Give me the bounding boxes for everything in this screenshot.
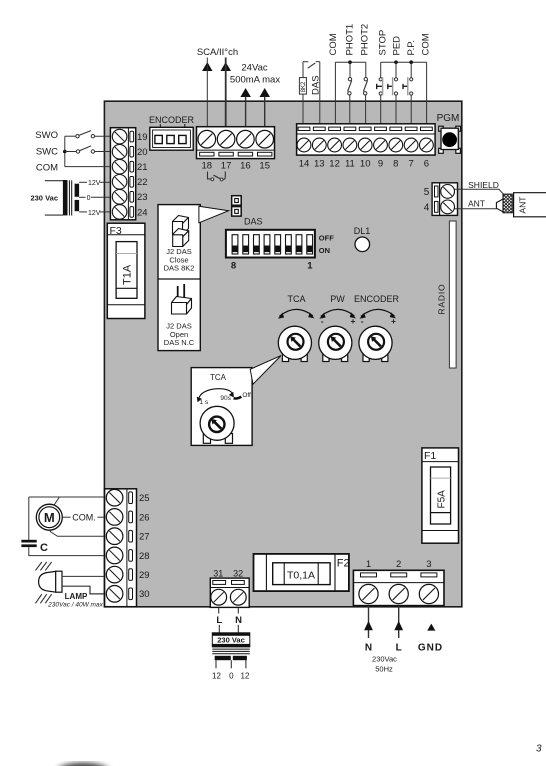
svg-text:2: 2 [396, 559, 401, 570]
DIP switch DAS [226, 230, 315, 258]
wire terminal 12 COM with bus to PHOT1/PHOT2 [335, 62, 365, 128]
svg-text:24: 24 [137, 207, 148, 218]
svg-text:DAS: DAS [311, 75, 322, 95]
wire motor common top (to terminal 25) [29, 497, 106, 505]
svg-text:32: 32 [233, 569, 243, 579]
screw terminal 15 [256, 130, 274, 148]
junction dot P.P. [409, 60, 413, 64]
screws of block 19-24 [112, 129, 127, 219]
svg-text:3: 3 [536, 744, 542, 755]
wire and arrow L (terminal 2) [394, 606, 403, 638]
svg-text:PW: PW [330, 294, 345, 304]
wire motor bottom (to terminal 27) [49, 530, 106, 536]
svg-text:OFF: OFF [319, 234, 334, 243]
transformer secondary windings [215, 656, 247, 660]
callout divider line [158, 278, 200, 280]
svg-text:50Hz: 50Hz [375, 664, 393, 673]
svg-text:30: 30 [139, 589, 150, 600]
fuse T0,1A [273, 563, 330, 585]
wire slots of block 15-18 [200, 152, 272, 156]
pin numbers 19-24 [137, 132, 148, 218]
switch SWC (to terminal 20) [65, 146, 111, 153]
wire 0 (to terminal 23) [79, 195, 111, 202]
svg-text:DAS 8K2: DAS 8K2 [164, 264, 195, 273]
svg-text:ANT: ANT [468, 199, 485, 209]
wire terminal 18 [206, 58, 208, 129]
potentiometer ENCODER [359, 326, 392, 361]
callout pointer to J2 jumper [199, 206, 229, 223]
wire left rail to capacitor [28, 497, 30, 540]
wire L to transformer [218, 608, 221, 633]
svg-text:DAS N.C: DAS N.C [164, 338, 195, 347]
terminal block 19-24 [110, 128, 135, 220]
potentiometer PW [319, 326, 352, 361]
pushbutton PED NO (wire terminal 8) [388, 62, 398, 128]
svg-text:230 Vac: 230 Vac [217, 636, 245, 645]
svg-text:0: 0 [87, 195, 91, 202]
screw terminal 4 [441, 200, 455, 214]
transformer core laminations [212, 649, 250, 654]
svg-text:SWC: SWC [36, 147, 58, 158]
svg-text:17: 17 [221, 160, 232, 171]
svg-text:L: L [396, 642, 402, 653]
svg-text:12V: 12V [88, 210, 101, 217]
svg-text:12: 12 [212, 672, 221, 681]
wire slots of block 25-30 [129, 492, 133, 600]
wire slots of block 19-24 [130, 131, 134, 217]
board PCB outline [104, 101, 461, 607]
wire terminal 17 [225, 58, 227, 129]
svg-text:5: 5 [424, 187, 430, 198]
svg-text:N: N [235, 615, 242, 626]
wire ant core [455, 208, 497, 210]
screw terminal 5 [441, 185, 455, 199]
svg-text:COM.: COM. [72, 512, 96, 522]
svg-text:26: 26 [139, 512, 150, 523]
wire COM (to terminal 26) [62, 512, 106, 522]
svg-text:9: 9 [378, 159, 383, 170]
jumper J2 on board [232, 196, 242, 216]
arrow II ch (to terminal 17) [221, 62, 232, 71]
wire shield to antenna [455, 189, 505, 195]
svg-text:F5A: F5A [437, 490, 448, 509]
pin numbers 14-6 [299, 159, 429, 170]
svg-text:11: 11 [345, 159, 355, 170]
svg-text:ON: ON [319, 246, 330, 255]
screw terminal 32 [230, 589, 246, 605]
antenna connector body (hatched) [503, 194, 512, 213]
svg-text:M: M [44, 510, 55, 525]
svg-text:LAMP: LAMP [65, 592, 88, 601]
svg-text:F1: F1 [424, 450, 436, 462]
wire lamp (to terminal 29) [62, 575, 106, 577]
svg-text:25: 25 [139, 493, 150, 504]
transformer 230Vac primary [212, 633, 250, 647]
wire terminal 16 [245, 97, 247, 129]
switch SWO (to terminal 19) [65, 131, 111, 138]
wire slots of block 6-14 [298, 127, 432, 130]
svg-text:SWO: SWO [35, 130, 58, 141]
arrow 24Vac (to terminal 15) [260, 88, 271, 97]
antenna box with ANT label [514, 193, 546, 217]
wire common rail left [64, 136, 66, 166]
wire capacitor (to terminal 28) [29, 547, 106, 556]
svg-text:8: 8 [231, 260, 236, 271]
callout pointer to TCA pot [250, 356, 281, 385]
svg-text:SHIELD: SHIELD [468, 180, 499, 190]
svg-text:3: 3 [426, 559, 431, 570]
callout box J2 DAS [158, 205, 200, 351]
svg-text:PHOT1: PHOT1 [345, 24, 356, 56]
potentiometer TCA [278, 326, 311, 361]
resistor 8K2 box on DAS wire [299, 78, 307, 95]
jumper link between terminals 18 and 17 [208, 172, 226, 181]
svg-text:1: 1 [366, 559, 371, 570]
svg-text:12: 12 [241, 672, 250, 681]
fuse holder F2 [254, 554, 350, 591]
svg-text:PHOT2: PHOT2 [359, 24, 370, 56]
svg-text:-: - [361, 316, 364, 326]
TCA dial scale arc with 1s / 90s / Off [197, 389, 251, 406]
svg-text:TCA: TCA [210, 373, 227, 382]
screw terminal 17 [217, 130, 235, 148]
screw terminal 16 [237, 130, 255, 148]
svg-text:ENCODER: ENCODER [354, 294, 400, 304]
svg-text:1 s: 1 s [199, 399, 208, 406]
svg-text:15: 15 [259, 160, 270, 171]
pushbutton PGM [439, 126, 461, 153]
LED DL1 [355, 237, 370, 252]
lamp symbol [39, 571, 62, 592]
screws of block 6-14 [297, 138, 433, 152]
svg-text:DAS: DAS [244, 216, 263, 226]
potentiometer TCA (callout) [200, 406, 234, 443]
svg-text:RADIO: RADIO [436, 284, 446, 315]
bus wire STOP/PED/P.P./COM [381, 61, 427, 63]
svg-text:20: 20 [137, 147, 148, 158]
antenna plug [496, 199, 503, 212]
jumper closed drawing (J2 DAS Close) [173, 216, 189, 247]
screw terminal 3 [419, 584, 438, 603]
svg-text:0: 0 [229, 672, 234, 681]
fuse T1A [116, 242, 137, 299]
pushbutton P.P. NO (wire terminal 7) [403, 62, 413, 128]
svg-text:1: 1 [307, 260, 313, 271]
svg-text:24Vac: 24Vac [241, 63, 267, 74]
motor M [36, 504, 62, 530]
svg-text:ENCODER: ENCODER [149, 115, 195, 125]
svg-text:TCA: TCA [288, 294, 306, 304]
screws of block 25-30 [106, 489, 123, 602]
svg-text:Off: Off [242, 392, 251, 399]
terminal block 31-32 [210, 578, 249, 607]
adjust arc PW with - + [319, 309, 356, 326]
svg-text:14: 14 [299, 159, 310, 170]
svg-text:F3: F3 [110, 225, 122, 237]
secondary wires 12-0-12 [216, 660, 246, 668]
svg-text:6: 6 [424, 159, 429, 170]
terminal block 25-30 [105, 489, 137, 607]
wire lamp (to terminal 30) [62, 586, 106, 594]
svg-text:+: + [391, 316, 396, 326]
screw terminal 18 [198, 130, 216, 148]
connector ENCODER [150, 124, 193, 150]
labels 12 0 12 [212, 672, 250, 681]
svg-text:12: 12 [329, 159, 340, 170]
svg-text:13: 13 [314, 159, 325, 170]
svg-text:12V: 12V [88, 180, 101, 187]
fuse F5A [431, 467, 451, 524]
svg-text:SCA/II°ch: SCA/II°ch [197, 47, 238, 58]
wire 12V (to terminal 22) [79, 180, 111, 187]
svg-text:90s: 90s [220, 395, 231, 402]
svg-text:T0,1A: T0,1A [287, 570, 315, 582]
arrow 24Vac (to terminal 16) [240, 88, 251, 97]
adjust arc TCA [278, 309, 315, 318]
svg-text:8K2: 8K2 [301, 81, 307, 92]
screw terminal 31 [211, 589, 227, 605]
switch PHOT2 (wire terminal 10) [363, 62, 367, 128]
RADIO slot strip [436, 221, 456, 368]
adjust arc ENCODER with - + [360, 309, 397, 326]
svg-text:PGM: PGM [437, 113, 460, 124]
svg-text:+: + [351, 316, 356, 326]
svg-text:230Vac / 40W max: 230Vac / 40W max [47, 601, 103, 608]
fuse holder F3 [107, 223, 145, 318]
svg-text:COM: COM [328, 33, 339, 55]
svg-text:L: L [216, 615, 222, 626]
svg-text:28: 28 [139, 551, 150, 562]
svg-text:230 Vac: 230 Vac [30, 193, 58, 202]
svg-text:23: 23 [137, 192, 148, 203]
svg-text:GND: GND [418, 642, 443, 653]
terminal block 6-14 [297, 124, 436, 155]
svg-text:18: 18 [202, 160, 213, 171]
svg-text:T1A: T1A [122, 264, 134, 285]
svg-text:PED: PED [392, 36, 403, 56]
screw terminal 1 [359, 584, 378, 603]
svg-text:29: 29 [139, 570, 150, 581]
svg-text:8: 8 [393, 159, 398, 170]
svg-text:16: 16 [240, 160, 251, 171]
svg-text:N: N [365, 642, 372, 653]
screw terminal 2 [389, 584, 408, 603]
wire 12V (to terminal 24) [79, 210, 111, 217]
pin numbers 25-30 [139, 493, 150, 600]
switch blade DAS contact [308, 63, 316, 68]
junction dot SWC rail [63, 150, 67, 154]
wire N to transformer [237, 608, 239, 633]
switch PHOT1 (wire terminal 11) [348, 62, 352, 128]
arrow GND (terminal 3) [427, 624, 435, 631]
svg-text:-: - [321, 316, 324, 326]
wire terminal 13 [316, 62, 320, 128]
svg-text:21: 21 [137, 162, 148, 173]
callout box TCA [191, 368, 252, 446]
label J2 DAS Open / DAS N.C [164, 322, 195, 348]
svg-text:31: 31 [213, 569, 223, 579]
svg-text:10: 10 [360, 159, 371, 170]
svg-text:DL1: DL1 [354, 226, 371, 236]
pushbutton STOP NC (wire terminal 9) [377, 62, 384, 128]
fuse holder F1 [422, 448, 459, 543]
junction dot PHOT1 [348, 60, 352, 64]
svg-text:7: 7 [408, 159, 413, 170]
terminal block 15-18 [197, 127, 275, 159]
wire terminal 14 with DAS switch [303, 62, 308, 128]
capacitor C [21, 540, 36, 547]
svg-text:4: 4 [424, 203, 430, 214]
terminal block 4-5 antenna [432, 183, 457, 216]
bottom-left shadow blob [57, 763, 109, 766]
transformer 230Vac/12-0-12 [45, 180, 79, 216]
svg-text:500mA max: 500mA max [230, 75, 280, 86]
wire terminal 6 COM [426, 62, 428, 128]
svg-text:STOP: STOP [377, 30, 388, 56]
svg-text:COM: COM [36, 163, 58, 174]
terminal block 1-2-3 [353, 570, 444, 605]
svg-text:27: 27 [139, 532, 150, 543]
svg-text:F2: F2 [337, 557, 350, 569]
svg-text:COM: COM [421, 33, 432, 55]
jumper open drawing (J2 DAS Open) [172, 284, 192, 314]
svg-text:C: C [40, 542, 48, 554]
label J2 DAS Close / DAS 8K2 [164, 247, 195, 273]
wire terminal 15 [264, 97, 266, 129]
wire and arrow N (terminal 1) [364, 606, 373, 638]
junction dot PED [394, 60, 398, 64]
arrow SCA (to terminal 18) [202, 62, 212, 71]
svg-text:230Vac: 230Vac [372, 654, 397, 663]
svg-text:ANT: ANT [518, 197, 528, 214]
svg-text:22: 22 [137, 177, 148, 188]
lamp rays [36, 562, 52, 603]
svg-text:P.P.: P.P. [406, 40, 417, 56]
wire COM (to terminal 21) [65, 166, 111, 168]
svg-text:19: 19 [137, 132, 148, 143]
